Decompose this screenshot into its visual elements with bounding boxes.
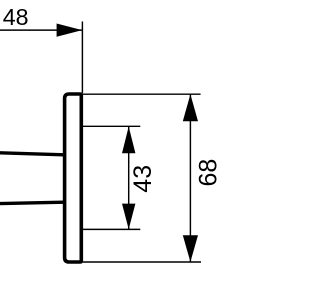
svg-text:43: 43 <box>129 165 157 193</box>
arrowhead 68 top <box>183 94 198 121</box>
extension line 48 (vertical) <box>81 22 83 94</box>
svg-text:48: 48 <box>3 4 29 30</box>
extension line 68 top <box>82 93 201 95</box>
bracket arm lower (rod) <box>0 202 64 203</box>
dimension line 68 <box>189 94 191 262</box>
arrowhead 68 bottom <box>183 235 198 262</box>
bracket arm upper (rod) <box>0 153 64 155</box>
wall plate (side view) <box>65 94 82 262</box>
svg-text:68: 68 <box>195 159 223 187</box>
dimension line 48 <box>0 29 82 31</box>
extension line 43 bottom <box>82 228 141 230</box>
extension line 68 bottom <box>82 261 202 263</box>
arrowhead 48 <box>57 24 83 37</box>
arrowhead 43 bottom <box>122 204 135 230</box>
arrowhead 43 top <box>122 127 135 154</box>
extension line 43 top <box>82 125 141 127</box>
dimension line 43 <box>128 126 130 229</box>
